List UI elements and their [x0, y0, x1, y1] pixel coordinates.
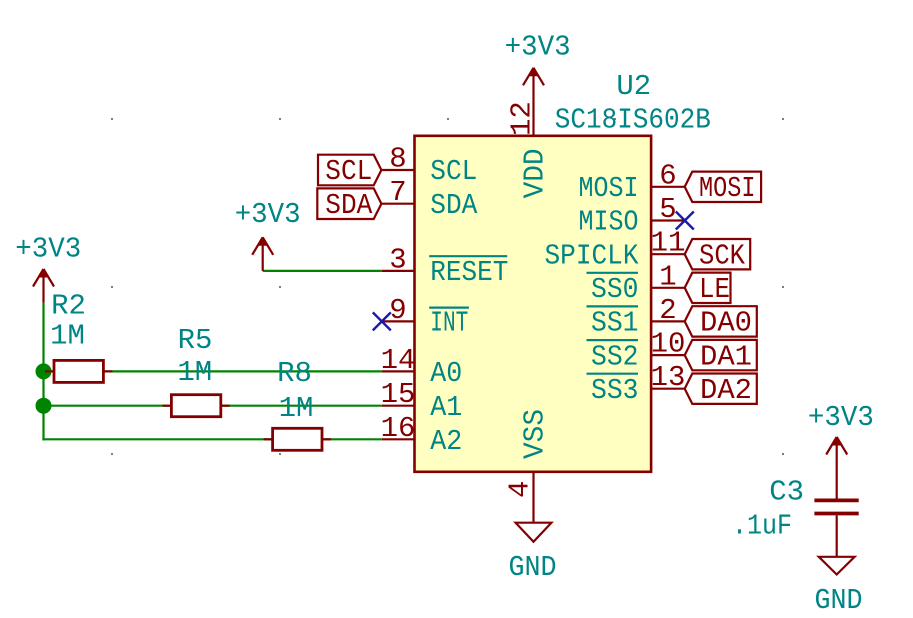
svg-text:RESET: RESET [430, 256, 508, 289]
svg-text:6: 6 [659, 159, 676, 192]
svg-text:MOSI: MOSI [579, 172, 639, 205]
wire A2 row [42, 438, 381, 440]
svg-text:U2: U2 [616, 70, 651, 103]
capacitor C3 [814, 500, 858, 556]
svg-text:1M: 1M [177, 356, 212, 389]
pin 2 SS1 stub [651, 320, 685, 322]
pin 5 MISO stub [651, 219, 685, 221]
ground GND right [815, 557, 863, 617]
svg-text:DA2: DA2 [700, 374, 752, 407]
pin 7 SDA stub [382, 203, 415, 205]
power +3V3 right (C3) [826, 437, 847, 499]
svg-text:MISO: MISO [579, 206, 639, 239]
pin 14 A0 stub [382, 370, 415, 372]
global label LE [685, 273, 731, 306]
svg-text:13: 13 [651, 361, 686, 394]
pin 6 MOSI stub [651, 186, 685, 188]
svg-text:MOSI: MOSI [699, 172, 756, 205]
svg-text:1: 1 [659, 260, 676, 293]
svg-text:GND: GND [815, 584, 863, 617]
wire A1 row [42, 405, 381, 407]
svg-text:SS1: SS1 [591, 307, 639, 340]
svg-text:DA1: DA1 [700, 340, 752, 373]
svg-text:.1uF: .1uF [732, 510, 792, 543]
no-connect X pin 5 [676, 212, 694, 230]
svg-text:9: 9 [389, 294, 406, 327]
svg-text:SDA: SDA [325, 189, 373, 222]
pin 15 A1 stub [382, 405, 415, 407]
svg-text:11: 11 [651, 227, 686, 260]
svg-text:INT: INT [430, 307, 468, 340]
svg-text:VSS: VSS [519, 409, 552, 459]
svg-text:16: 16 [381, 412, 416, 445]
global label SDA [317, 188, 381, 222]
svg-text:12: 12 [506, 101, 539, 136]
global label MOSI [685, 172, 761, 205]
ground GND bottom [509, 523, 557, 584]
pin 9 INT stub [382, 320, 415, 322]
junction at R2 row [36, 363, 52, 379]
pin 10 SS2 stub [651, 354, 685, 356]
IC U2 body [415, 136, 652, 472]
global label SCL [318, 155, 381, 189]
wire +3V3 left vertical [42, 303, 44, 441]
pin 16 A2 stub [382, 438, 415, 440]
junction at R5 row [36, 398, 52, 414]
svg-text:+3V3: +3V3 [808, 401, 874, 434]
svg-text:SPICLK: SPICLK [545, 239, 640, 272]
svg-text:LE: LE [699, 273, 730, 306]
svg-text:2: 2 [659, 294, 676, 327]
svg-text:SCL: SCL [430, 155, 477, 188]
svg-text:1M: 1M [50, 319, 85, 352]
svg-text:R8: R8 [277, 357, 312, 390]
svg-text:1M: 1M [279, 392, 314, 425]
pin 13 SS3 stub [651, 388, 685, 390]
svg-text:GND: GND [509, 551, 557, 584]
resistor R8 [264, 428, 331, 450]
resistor R2 [45, 360, 112, 382]
svg-text:3: 3 [389, 243, 406, 276]
svg-text:+3V3: +3V3 [505, 31, 571, 64]
svg-text:8: 8 [389, 143, 406, 176]
svg-text:A2: A2 [430, 425, 462, 458]
power +3V3 mid (RESET) [252, 237, 273, 271]
svg-text:SS0: SS0 [591, 273, 639, 306]
svg-text:R5: R5 [178, 324, 213, 357]
wire A0 row [42, 370, 381, 372]
svg-text:SDA: SDA [430, 189, 478, 222]
svg-text:10: 10 [651, 328, 686, 361]
svg-text:SS3: SS3 [591, 374, 639, 407]
power +3V3 left [33, 269, 54, 303]
svg-text:SCK: SCK [699, 239, 746, 272]
pin 11 SPICLK stub [651, 253, 685, 255]
wire RESET net [263, 270, 382, 272]
resistor R5 [162, 395, 229, 417]
svg-text:7: 7 [389, 176, 406, 209]
svg-text:SS2: SS2 [591, 340, 639, 373]
global label DA1 [685, 340, 757, 373]
svg-text:4: 4 [504, 481, 537, 498]
svg-text:A0: A0 [430, 357, 462, 390]
svg-text:R2: R2 [51, 290, 86, 323]
global label DA0 [685, 306, 757, 340]
power +3V3 top (VDD) [523, 68, 544, 136]
svg-text:+3V3: +3V3 [15, 233, 81, 266]
svg-text:A1: A1 [430, 391, 462, 424]
svg-text:VDD: VDD [519, 148, 552, 198]
pin 8 SCL stub [382, 169, 415, 171]
svg-text:C3: C3 [769, 475, 804, 508]
svg-text:+3V3: +3V3 [235, 198, 301, 231]
svg-text:5: 5 [659, 193, 676, 226]
pin 1 SS0 stub [651, 287, 685, 289]
global label SCK [685, 239, 751, 272]
global label DA2 [685, 374, 757, 408]
svg-text:SCL: SCL [325, 155, 372, 188]
svg-text:SC18IS602B: SC18IS602B [555, 104, 711, 137]
svg-text:15: 15 [381, 378, 416, 411]
pin 3 RESET stub [382, 270, 415, 272]
svg-text:DA0: DA0 [700, 307, 752, 340]
no-connect X pin 9 [373, 312, 391, 330]
svg-text:14: 14 [381, 344, 416, 377]
grid dots [111, 118, 784, 455]
pin 4 VSS stub + gnd lead [532, 472, 534, 523]
